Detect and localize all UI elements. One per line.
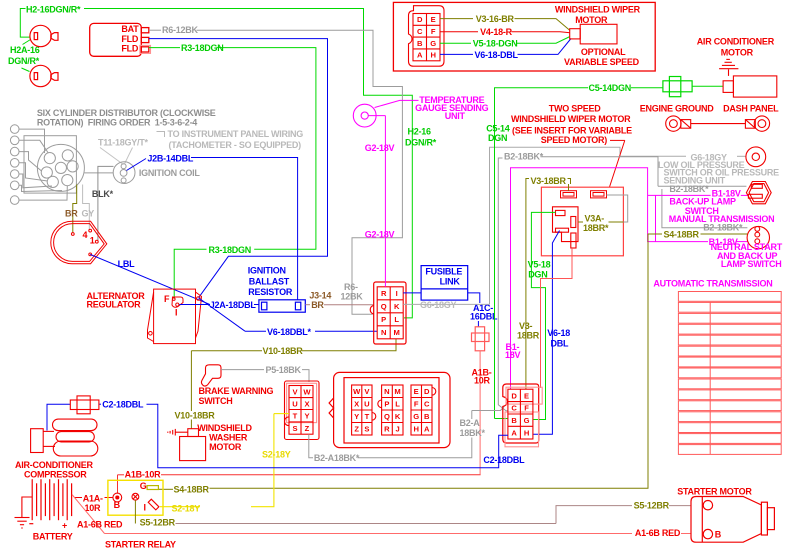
- svg-text:D: D: [417, 15, 423, 24]
- svg-text:Z: Z: [354, 425, 359, 434]
- svg-text:F: F: [414, 400, 419, 409]
- svg-text:G2-18V: G2-18V: [365, 143, 395, 153]
- svg-text:WASHER: WASHER: [209, 433, 248, 443]
- svg-text:18BR: 18BR: [517, 330, 540, 340]
- svg-text:1: 1: [90, 235, 95, 245]
- oil pressure sending unit: [746, 147, 766, 167]
- wire C2-18DBL blue A cell to compressor: [47, 404, 508, 468]
- svg-text:G: G: [413, 412, 419, 421]
- svg-text:B: B: [715, 529, 722, 539]
- motor terminal 2: [591, 191, 607, 198]
- svg-text:I: I: [175, 308, 177, 318]
- svg-text:D: D: [511, 391, 517, 400]
- svg-text:I: I: [144, 503, 146, 513]
- svg-text:A: A: [511, 428, 517, 437]
- wire S2-18Y yellow relay to T cell: [160, 414, 289, 507]
- wire G6-18GY gray K-cell to oil pressure unit: [403, 147, 746, 304]
- svg-text:C2-18DBL: C2-18DBL: [483, 455, 525, 465]
- svg-text:UNIT: UNIT: [445, 111, 466, 121]
- svg-text:J2A-18DBL: J2A-18DBL: [210, 300, 257, 310]
- svg-text:J2B-14DBL: J2B-14DBL: [147, 153, 194, 163]
- insert box windshield wiper motor optional variable speed: [393, 2, 655, 71]
- engine ground symbol: [666, 116, 746, 131]
- distributor housing box: [24, 136, 76, 193]
- svg-text:K: K: [395, 412, 401, 421]
- svg-text:SWITCH: SWITCH: [199, 396, 233, 406]
- bullet connector A1C red: [472, 327, 490, 351]
- svg-text:OPTIONAL: OPTIONAL: [581, 47, 626, 57]
- wire V6-18-DBL insert H to motor: [440, 39, 571, 55]
- svg-text:L: L: [395, 400, 400, 409]
- wire H2-16DGN/R* green alternator-to-L: [20, 9, 412, 318]
- svg-text:G: G: [430, 39, 436, 48]
- svg-text:DASH PANEL: DASH PANEL: [723, 104, 779, 114]
- svg-text:B: B: [424, 412, 430, 421]
- svg-text:ENGINE GROUND: ENGINE GROUND: [640, 104, 715, 114]
- distributor lead wires: [19, 129, 67, 200]
- svg-text:B2-18BK*: B2-18BK*: [669, 184, 709, 194]
- wire coil to distributor: [84, 172, 113, 174]
- svg-text:X: X: [304, 399, 309, 408]
- battery ground: [15, 497, 33, 528]
- svg-text:Q: Q: [384, 412, 390, 421]
- svg-text:S: S: [292, 424, 297, 433]
- salmon highlight rows B/G A/H: [505, 412, 539, 447]
- relay X terminal: [132, 493, 139, 500]
- svg-text:S5-12BR: S5-12BR: [140, 517, 176, 527]
- svg-text:R3-18DGN: R3-18DGN: [209, 245, 252, 255]
- svg-text:V6-18DBL*: V6-18DBL*: [267, 327, 312, 337]
- svg-text:V6-18-DBL: V6-18-DBL: [475, 50, 519, 60]
- svg-text:IGNITION COIL: IGNITION COIL: [139, 168, 201, 178]
- svg-text:R6-: R6-: [344, 282, 358, 292]
- wire V3-16-BR insert E to motor: [440, 19, 570, 31]
- svg-text:12BK: 12BK: [341, 292, 364, 302]
- V/W connector grid: [284, 386, 313, 435]
- wire V5-18DGN green motor to B cell: [495, 212, 556, 419]
- svg-text:U: U: [364, 400, 370, 409]
- svg-text:A: A: [424, 425, 430, 434]
- back-up lamp switch hexagon: [746, 182, 771, 204]
- svg-text:BR: BR: [65, 209, 78, 219]
- wire P5-18BK gray brake switch to W cell: [221, 370, 309, 382]
- svg-text:WINDSHIELD: WINDSHIELD: [197, 423, 252, 433]
- svg-text:W: W: [353, 387, 361, 396]
- svg-text:H: H: [413, 425, 418, 434]
- leader lines T11 to coil: [100, 148, 133, 165]
- starter relay yellow box: [108, 480, 163, 515]
- salmon highlight rows D/E: [506, 387, 542, 404]
- svg-text:BAT: BAT: [121, 24, 139, 34]
- wire B2-18BK* gray bracket to switches: [498, 157, 747, 411]
- svg-text:V3-18BR: V3-18BR: [531, 176, 567, 186]
- V/W connector outer: [285, 381, 320, 440]
- svg-text:Q: Q: [381, 302, 387, 311]
- svg-text:(SEE INSERT FOR VARIABLE: (SEE INSERT FOR VARIABLE: [512, 125, 632, 135]
- svg-text:DGN: DGN: [528, 269, 547, 279]
- svg-text:MOTOR: MOTOR: [575, 15, 608, 25]
- connector letters R I Q K P L N M: [381, 289, 400, 337]
- svg-text:E: E: [524, 391, 529, 400]
- wire J2A-18DBL I-terminal to ballast resistor: [179, 304, 210, 306]
- svg-text:TO INSTRUMENT PANEL WIRING: TO INSTRUMENT PANEL WIRING: [168, 129, 304, 139]
- svg-text:B: B: [114, 500, 121, 510]
- svg-text:G: G: [524, 416, 530, 425]
- svg-text:S4-18BR: S4-18BR: [664, 229, 700, 239]
- svg-text:VARIABLE SPEED: VARIABLE SPEED: [564, 57, 640, 67]
- svg-text:H2A-16: H2A-16: [10, 45, 40, 55]
- wire V5-18-DGN insert G to motor: [440, 37, 570, 44]
- svg-text:T11-18GY/T*: T11-18GY/T*: [98, 137, 149, 147]
- svg-text:M: M: [394, 387, 400, 396]
- insert motor symbol: [570, 24, 617, 44]
- wire R6-12BK gray regulator to connector Q: [149, 30, 403, 314]
- svg-text:Y: Y: [354, 412, 359, 421]
- svg-text:A: A: [417, 51, 423, 60]
- big middle connector outer: [329, 372, 450, 447]
- dash panel symbol: [745, 116, 769, 131]
- svg-text:+: +: [62, 521, 67, 531]
- svg-text:SPEED MOTOR): SPEED MOTOR): [541, 135, 608, 145]
- middle connector grid 3 ED/FC/GB/HA: [411, 385, 436, 435]
- svg-text:E: E: [414, 387, 419, 396]
- svg-text:V6-18: V6-18: [547, 328, 570, 338]
- svg-text:P5-18BK: P5-18BK: [266, 365, 302, 375]
- leader to temperature text: [375, 100, 419, 107]
- wire C5-14DGN green to A/C connector: [495, 86, 724, 418]
- inline connector C2 red: [70, 396, 99, 414]
- neutral start switch: [747, 226, 769, 248]
- svg-text:FLD: FLD: [121, 34, 138, 44]
- wire J2B-14DBL coil to ballast: [127, 158, 298, 301]
- svg-text:18BR*: 18BR*: [583, 223, 609, 233]
- battery minus dash: [29, 523, 33, 525]
- wire V6-18DBL* flap to connector N: [199, 298, 378, 331]
- windshield washer motor: [168, 429, 206, 461]
- svg-text:C5-14: C5-14: [486, 123, 510, 133]
- svg-text:B2-18BK*: B2-18BK*: [504, 152, 544, 162]
- wire BLK* coil to rotor: [98, 166, 114, 240]
- svg-text:COMPRESSOR: COMPRESSOR: [24, 470, 87, 480]
- connector R/Q/P/N grid: [377, 287, 403, 339]
- svg-text:BRAKE WARNING: BRAKE WARNING: [199, 386, 274, 396]
- svg-text:V4-18-R: V4-18-R: [480, 27, 513, 37]
- svg-text:MOTOR: MOTOR: [209, 442, 242, 452]
- svg-text:A1B-10R: A1B-10R: [125, 469, 162, 479]
- svg-text:ROTATION) FIRING ORDER 1-5-3: ROTATION) FIRING ORDER 1-5-3-6-2-4: [37, 118, 197, 128]
- wire V3A olive: [578, 221, 583, 223]
- svg-text:G: G: [140, 481, 147, 491]
- svg-text:LAMP SWITCH: LAMP SWITCH: [721, 259, 782, 269]
- wire B1-18V magenta loop: [511, 168, 749, 389]
- svg-text:GY: GY: [82, 209, 95, 219]
- relay I blade: [148, 499, 159, 510]
- svg-text:V3A-: V3A-: [585, 214, 605, 224]
- svg-text:E: E: [431, 15, 436, 24]
- svg-text:18BK*: 18BK*: [460, 428, 486, 438]
- V/W salmon highlight: [287, 383, 317, 422]
- svg-text:S2-18Y: S2-18Y: [262, 450, 291, 460]
- air conditioner motor: [719, 59, 777, 97]
- svg-text:D: D: [424, 387, 430, 396]
- svg-text:V10-18BR: V10-18BR: [175, 410, 216, 420]
- svg-text:AUTOMATIC TRANSMISSION: AUTOMATIC TRANSMISSION: [653, 279, 772, 289]
- svg-text:F: F: [431, 27, 436, 36]
- svg-text:WINDSHIELD WIPER MOTOR: WINDSHIELD WIPER MOTOR: [511, 114, 631, 124]
- automatic transmission table: [678, 292, 781, 455]
- svg-text:AIR CONDITIONER: AIR CONDITIONER: [697, 36, 775, 46]
- gray jumper terminal2: [607, 195, 628, 222]
- svg-text:S4-18BR: S4-18BR: [174, 485, 210, 495]
- wire BR olive distributor to rotor: [73, 185, 77, 233]
- svg-text:DGN/R*: DGN/R*: [8, 56, 40, 66]
- svg-text:T: T: [293, 412, 298, 421]
- svg-text:H: H: [524, 428, 529, 437]
- wire S5-12BR relay to starter: [134, 500, 136, 523]
- wire GY gray distributor to rotor: [83, 185, 90, 230]
- connector R/Q/P/N outer box: [370, 282, 406, 344]
- motor inner connector: [553, 207, 579, 248]
- air-conditioner compressor: [31, 419, 98, 456]
- svg-text:BATTERY: BATTERY: [33, 532, 73, 542]
- wire R3-18DGN green FLD2 to F terminal: [149, 48, 316, 299]
- fusible link box: [421, 266, 468, 301]
- svg-text:H2-16DGN/R*: H2-16DGN/R*: [26, 5, 81, 15]
- svg-text:B: B: [417, 39, 423, 48]
- voltage regulator box BAT/FLD/FLD: [90, 23, 149, 56]
- label TO INSTRUMENT PANEL WIRING bracket: [157, 132, 165, 138]
- svg-text:WINDSHIELD WIPER: WINDSHIELD WIPER: [555, 5, 641, 15]
- wire field blue FLD1 to regulator flap: [149, 39, 328, 298]
- svg-text:R3-18DGN: R3-18DGN: [181, 43, 224, 53]
- middle connector grid 2 NM/PL/QK/RJ: [378, 385, 403, 435]
- two-speed wiper motor box: [541, 187, 623, 256]
- svg-text:F: F: [164, 294, 170, 304]
- svg-text:16DBL: 16DBL: [470, 312, 498, 322]
- svg-text:G6-18GY: G6-18GY: [420, 300, 457, 310]
- svg-text:DGN: DGN: [488, 133, 507, 143]
- svg-text:MOTOR: MOTOR: [721, 47, 754, 57]
- svg-text:V3-16-BR: V3-16-BR: [476, 14, 515, 24]
- svg-text:V10-18BR: V10-18BR: [263, 346, 304, 356]
- alternator regulator body: [148, 289, 202, 344]
- svg-text:P: P: [381, 315, 386, 324]
- middle connector grid 1 WV/XU/YT/ZS: [352, 385, 376, 435]
- distributor terminal circles: [10, 125, 19, 205]
- relay G terminal: [147, 486, 158, 490]
- svg-text:FUSIBLE: FUSIBLE: [425, 267, 462, 277]
- svg-text:18V: 18V: [505, 350, 521, 360]
- svg-text:FLD: FLD: [121, 44, 138, 54]
- svg-text:V5-18: V5-18: [528, 259, 551, 269]
- wire A1-6B RED battery to starter: [72, 495, 691, 534]
- svg-text:TWO SPEED: TWO SPEED: [549, 104, 602, 114]
- battery: [32, 479, 71, 520]
- leader from label to motor box: [610, 140, 625, 187]
- insert connector grid D-H: [413, 14, 440, 61]
- starter motor: [691, 497, 774, 543]
- wire red motor connector down: [541, 248, 573, 388]
- svg-text:S2-18Y: S2-18Y: [172, 503, 201, 513]
- svg-text:J3-14: J3-14: [309, 290, 331, 300]
- wire B2-A18BK* gray Z cell loop: [309, 406, 505, 458]
- svg-text:M: M: [394, 328, 400, 337]
- svg-text:V5-18-DGN: V5-18-DGN: [473, 39, 518, 49]
- svg-text:STARTER MOTOR: STARTER MOTOR: [677, 487, 752, 497]
- svg-text:Z: Z: [305, 424, 310, 433]
- svg-text:C: C: [511, 404, 517, 413]
- connector D/H bottom outer: [503, 384, 539, 443]
- svg-text:SIX CYLINDER DISTRIBUTOR (CLOC: SIX CYLINDER DISTRIBUTOR (CLOCKWISE: [37, 108, 216, 118]
- motor terminal 1: [561, 191, 577, 198]
- svg-text:LINK: LINK: [440, 277, 461, 287]
- svg-text:(TACHOMETER - SO EQUIPPED): (TACHOMETER - SO EQUIPPED): [169, 140, 302, 150]
- svg-text:B: B: [511, 416, 517, 425]
- svg-text:F: F: [524, 404, 529, 413]
- svg-text:W: W: [303, 387, 311, 396]
- svg-text:R6-12BK: R6-12BK: [162, 25, 199, 35]
- svg-text:BLK*: BLK*: [92, 189, 114, 199]
- svg-text:4: 4: [83, 230, 88, 240]
- svg-text:H: H: [430, 51, 435, 60]
- relay B terminal: [113, 493, 122, 502]
- distributor cap circle: [37, 144, 84, 191]
- wire V4-18-R insert F to motor: [440, 32, 570, 33]
- wire J3-14 BR rosy ballast to connector Q: [305, 304, 310, 306]
- svg-text:IGNITION: IGNITION: [248, 265, 286, 275]
- ballast resistor box: [259, 300, 305, 312]
- svg-text:10R: 10R: [474, 376, 491, 386]
- connector D/H grid: [508, 389, 533, 439]
- salmon overlay on FLD2 terminal: [140, 45, 151, 53]
- svg-text:BR: BR: [311, 300, 324, 310]
- svg-text:A1-6B RED: A1-6B RED: [77, 520, 123, 530]
- svg-text:STARTER RELAY: STARTER RELAY: [105, 540, 176, 550]
- wire V10-18BR olive connector M to washer motor: [191, 339, 396, 429]
- svg-text:S5-12BR: S5-12BR: [634, 501, 670, 511]
- svg-text:X: X: [354, 400, 359, 409]
- svg-text:10R: 10R: [85, 503, 102, 513]
- svg-text:T: T: [365, 412, 370, 421]
- svg-text:B2-A18BK*: B2-A18BK*: [314, 453, 360, 463]
- svg-text:C2-18DBL: C2-18DBL: [102, 400, 144, 410]
- svg-text:J: J: [395, 425, 399, 434]
- brake warning switch: [201, 365, 221, 386]
- svg-text:N: N: [381, 328, 386, 337]
- svg-text:C5-14DGN: C5-14DGN: [589, 83, 632, 93]
- svg-text:R: R: [384, 425, 390, 434]
- distributor rotor red: [51, 221, 107, 263]
- svg-text:DGN/R*: DGN/R*: [405, 138, 437, 148]
- alternator plug H2A upper: [30, 25, 58, 46]
- svg-text:MANUAL TRANSMISSION: MANUAL TRANSMISSION: [669, 214, 775, 224]
- inline connector C5 green: [663, 77, 692, 97]
- wire A1C-16DBL blue I-cell through fusible link: [403, 293, 480, 327]
- ignition coil: [113, 162, 135, 184]
- svg-text:A1-6B RED: A1-6B RED: [635, 528, 681, 538]
- svg-text:U: U: [292, 399, 298, 408]
- svg-text:I: I: [396, 289, 398, 298]
- svg-text:AIR-CONDITIONER: AIR-CONDITIONER: [15, 460, 93, 470]
- wire V3-18BR olive bracket to E cell: [526, 179, 571, 390]
- svg-text:DBL: DBL: [551, 339, 569, 349]
- svg-text:H2-16: H2-16: [408, 127, 432, 137]
- svg-text:B2-A: B2-A: [460, 418, 481, 428]
- temperature gauge sending unit symbol: [353, 104, 376, 127]
- wire G2-18V magenta sending unit to R: [368, 116, 385, 287]
- svg-text:G2-18V: G2-18V: [365, 229, 395, 239]
- wire A1A-10R battery to relay B: [75, 497, 113, 499]
- svg-text:C: C: [417, 27, 423, 36]
- svg-text:N: N: [384, 387, 389, 396]
- wire S4-18BR olive relay G to neutral switch: [158, 234, 747, 489]
- wire A1B-10R salmon down-left to relay: [479, 351, 481, 475]
- wire LBL rotor to J2A: [90, 254, 209, 304]
- svg-text:R: R: [381, 289, 387, 298]
- svg-text:RESISTOR: RESISTOR: [248, 287, 293, 297]
- insert connector shell: [409, 6, 445, 66]
- alternator plug H2A lower: [30, 65, 58, 86]
- svg-text:C: C: [424, 400, 430, 409]
- svg-text:Y: Y: [304, 412, 309, 421]
- svg-text:S: S: [364, 425, 369, 434]
- wire V6-18DBL blue motor to H cell: [533, 231, 560, 435]
- svg-text:P: P: [384, 400, 389, 409]
- svg-text:LBL: LBL: [118, 259, 135, 269]
- svg-text:REGULATOR: REGULATOR: [87, 299, 142, 309]
- svg-text:BALLAST: BALLAST: [249, 276, 290, 286]
- svg-text:L: L: [394, 315, 399, 324]
- svg-text:K: K: [394, 302, 400, 311]
